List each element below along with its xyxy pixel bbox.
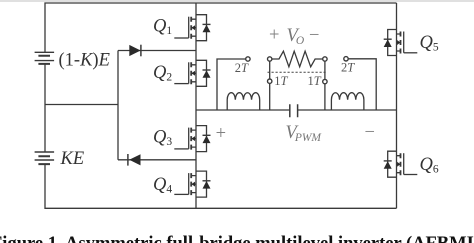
svg-text:1T: 1T: [274, 74, 288, 88]
svg-text:VPWM: VPWM: [286, 123, 323, 144]
svg-text:(1-K)E: (1-K)E: [59, 50, 110, 70]
svg-text:−: −: [309, 26, 319, 46]
svg-text:−: −: [365, 122, 375, 142]
svg-text:Figure 1. Asymmetric full-brid: Figure 1. Asymmetric full-bridge multile…: [0, 234, 474, 243]
svg-text:2T: 2T: [235, 61, 249, 75]
svg-text:1T: 1T: [308, 74, 322, 88]
svg-text:2T: 2T: [341, 60, 355, 74]
svg-text:Q5: Q5: [420, 33, 439, 54]
svg-text:Q3: Q3: [153, 128, 172, 149]
svg-text:VO: VO: [287, 26, 305, 47]
svg-text:Q6: Q6: [420, 155, 439, 176]
svg-text:KE: KE: [60, 149, 85, 169]
svg-text:Q2: Q2: [153, 63, 172, 84]
svg-text:Q4: Q4: [153, 175, 172, 196]
svg-text:+: +: [216, 124, 226, 144]
svg-text:+: +: [269, 26, 279, 46]
svg-text:Q1: Q1: [153, 17, 172, 38]
